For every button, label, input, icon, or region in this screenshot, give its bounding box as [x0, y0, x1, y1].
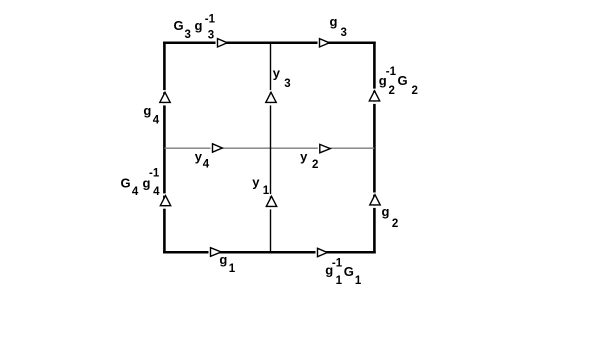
label: g2 (right edge lower gain) — [382, 204, 399, 230]
label: node y1 — [252, 175, 270, 198]
svg-text:G: G — [398, 73, 408, 88]
label: g1^-1 G1 (bottom edge right gain) — [325, 258, 362, 288]
svg-text:-1: -1 — [332, 258, 343, 270]
svg-text:-1: -1 — [149, 168, 160, 180]
svg-text:2: 2 — [412, 85, 418, 97]
svg-text:1: 1 — [355, 275, 362, 287]
wire: square bottom edge — [163, 251, 376, 254]
arrowhead: top edge left (right-pointing) — [216, 39, 228, 47]
wire: square top edge — [163, 42, 376, 45]
svg-text:G: G — [174, 18, 184, 33]
svg-text:2: 2 — [389, 85, 395, 97]
arrowhead: top edge right (right-pointing) — [318, 39, 330, 47]
label: node y4 — [195, 149, 210, 171]
arrowhead: bottom edge left (right-pointing) — [209, 248, 222, 257]
svg-text:4: 4 — [153, 115, 160, 127]
svg-text:3: 3 — [208, 30, 214, 42]
arrowhead: center horizontal left (right-pointing) — [211, 144, 223, 152]
svg-text:g: g — [219, 252, 227, 267]
svg-text:-1: -1 — [386, 66, 397, 78]
label: node y2 — [300, 149, 318, 171]
svg-text:y: y — [252, 175, 260, 190]
svg-text:y: y — [195, 149, 203, 164]
arrowhead: bottom edge right (right-pointing) — [316, 248, 328, 256]
arrowhead: center horizontal right (right-pointing) — [318, 144, 330, 152]
svg-text:4: 4 — [203, 159, 210, 171]
arrowhead: left edge upper (up-pointing) — [160, 90, 170, 105]
svg-text:1: 1 — [263, 185, 270, 197]
svg-text:3: 3 — [185, 29, 191, 41]
svg-text:G: G — [121, 176, 131, 191]
label: G4 g4^-1 (left edge lower gain) — [121, 168, 161, 199]
label: g4 (left edge upper gain) — [143, 103, 159, 127]
svg-text:G: G — [344, 264, 354, 279]
svg-text:2: 2 — [312, 159, 318, 171]
label: G3 g3^-1 (top edge left gain) — [174, 14, 216, 42]
arrowhead: center vertical lower (up-pointing) — [266, 194, 276, 209]
svg-text:2: 2 — [392, 218, 398, 230]
label: g3 (top edge right gain) — [330, 14, 347, 39]
svg-text:g: g — [143, 103, 151, 118]
wire: square left edge — [163, 42, 166, 254]
label: g1 (bottom edge left gain) — [219, 252, 235, 275]
svg-text:-1: -1 — [205, 14, 216, 26]
svg-text:y: y — [273, 66, 281, 81]
arrowhead: right edge lower (up-pointing) — [370, 193, 380, 208]
arrowhead: right edge upper (up-pointing) — [369, 89, 379, 104]
svg-text:g: g — [382, 204, 390, 219]
svg-text:3: 3 — [284, 78, 290, 90]
arrowhead: center vertical upper (up-pointing) — [266, 90, 276, 105]
svg-text:y: y — [300, 149, 308, 164]
svg-text:4: 4 — [153, 186, 160, 198]
wire: vertical center line — [270, 43, 272, 252]
svg-text:1: 1 — [336, 275, 343, 287]
arrowhead: left edge lower (up-pointing) — [160, 193, 170, 208]
wire: square right edge — [373, 42, 376, 254]
svg-text:4: 4 — [132, 186, 139, 198]
svg-text:g: g — [195, 18, 203, 33]
svg-text:g: g — [330, 14, 338, 29]
svg-text:1: 1 — [229, 263, 236, 275]
label: g2^-1 G2 (right edge upper gain) — [379, 66, 418, 97]
svg-text:3: 3 — [341, 27, 347, 39]
wire: horizontal center line — [164, 147, 374, 149]
label: node y3 — [273, 66, 291, 91]
